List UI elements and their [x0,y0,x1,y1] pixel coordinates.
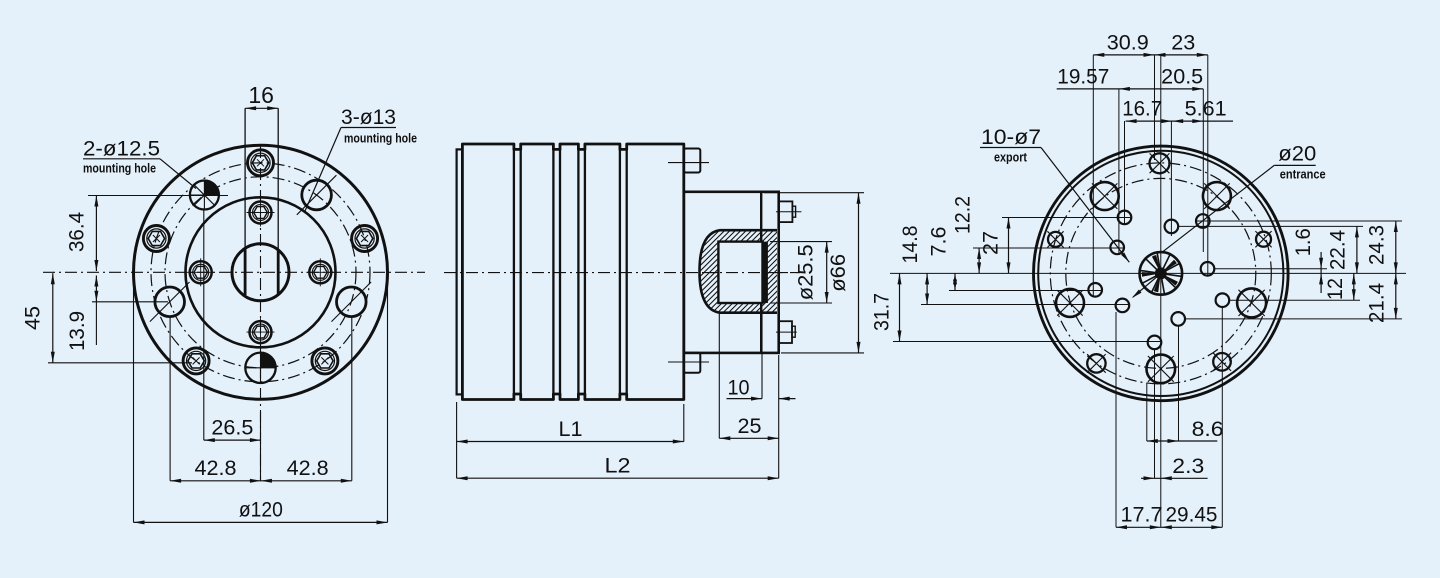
flange plate line [760,192,762,353]
shaft hole flat + 16-dim extension lines [244,108,246,295]
rear face inner circle [1038,151,1283,396]
svg-text:mounting hole: mounting hole [83,162,156,176]
dim 7.6 [954,273,956,290]
hole large at 198 deg [1056,289,1084,317]
center shaft hole [232,244,289,301]
svg-text:export: export [994,151,1028,165]
dim 42.8 + 42.8 bottom [169,317,171,481]
hex socket screw at 162 deg [143,226,169,252]
svg-text:13.9: 13.9 [66,311,89,351]
svg-text:30.9: 30.9 [1107,32,1149,55]
dim 27 [1008,218,1010,274]
heavy seal bar [762,242,768,303]
hex socket screw at 18 deg [352,226,378,252]
hole bolt circle hole [1213,353,1231,371]
dim ø120 bottom [133,280,135,522]
svg-text:42.8: 42.8 [195,457,237,480]
dim 10 [761,313,763,399]
svg-text:20.5: 20.5 [1161,66,1203,89]
centerline vertical right view [1160,55,1162,527]
svg-text:21.4: 21.4 [1366,283,1389,323]
svg-text:3-ø13: 3-ø13 [341,106,396,129]
svg-text:14.8: 14.8 [899,226,922,264]
bottom stud bolt on body [684,353,701,373]
svg-text:25: 25 [738,415,762,438]
hole bolt circle hole [1256,232,1271,247]
mounting hole 3-ø13 upper right [302,180,332,210]
dim 26.5 bottom [203,210,205,440]
leader from center to export hole K [1133,273,1161,297]
dim 2.3 [1141,477,1208,479]
svg-text:16.7: 16.7 [1122,98,1162,121]
svg-text:26.5: 26.5 [211,417,253,440]
hex socket screw at 234 deg [183,348,209,374]
hole bolt circle hole [1048,232,1063,247]
hole bolt circle hole [1087,354,1105,372]
svg-text:23: 23 [1171,32,1195,55]
svg-text:24.3: 24.3 [1366,225,1389,265]
bolt circle r95 dash-dot [1066,178,1256,368]
dim 14.8 [926,273,928,304]
svg-text:31.7: 31.7 [871,293,894,331]
left end cap [457,149,463,394]
half-section mounting hole 2-ø12.5 upper left [190,181,219,210]
small hole ø7 #4 [1088,283,1102,297]
small hole ø7 #9 [1201,262,1215,276]
svg-text:42.8: 42.8 [287,457,329,480]
dim L2 [778,355,780,478]
bolt circle r95 dash-dot [165,177,356,368]
dim 31.7 [899,273,901,341]
svg-text:L2: L2 [605,455,631,478]
svg-text:12.2: 12.2 [952,196,975,234]
center entrance hole ø20 with turbine spokes [1140,252,1183,295]
dim 21.4 [1395,273,1397,319]
dim 36.4 left [88,195,228,197]
small hole ø7 #8 [1216,293,1230,307]
dim 16 top [245,107,278,109]
bolt circle r110 dash-dot [1050,163,1271,384]
centerline horizontal right view [890,272,1406,274]
svg-text:12: 12 [1324,278,1347,300]
hex socket screw inner at 270 deg [250,321,272,343]
svg-text:ø120: ø120 [239,499,283,522]
flange inner ring [186,197,336,347]
svg-text:mounting hole: mounting hole [344,132,417,146]
svg-text:16: 16 [248,82,274,108]
hole large at 54 deg [1203,182,1231,210]
small hole ø7 #6 [1148,336,1162,350]
half-section mounting hole 2-ø12.5 bottom [245,353,275,383]
top stud bolt on body [684,149,701,173]
studs on flange plate right [779,201,793,222]
shaft hole flats (thick chords) [244,250,247,296]
centerline vertical left view [260,146,262,481]
hex socket screw inner at 90 deg [250,202,272,224]
svg-text:19.57: 19.57 [1057,66,1109,89]
svg-text:ø20: ø20 [1278,143,1316,166]
vertical extension lines bottom dims [1115,312,1117,527]
dim 12.2 [978,248,980,273]
mounting hole 3-ø13 lower left [155,287,185,317]
port bore (white) [718,242,762,303]
hex socket screw at 306 deg [312,348,338,374]
svg-text:1.6: 1.6 [1292,228,1315,256]
svg-text:8.6: 8.6 [1192,418,1224,441]
svg-text:22.4: 22.4 [1327,230,1350,270]
dim 12 [1353,273,1355,300]
flange outer circle ø120 [134,145,388,399]
bolt circle r110 dash-dot [151,163,370,382]
dim L1 [456,402,458,478]
small hole ø7 #2 [1118,211,1132,225]
svg-text:10: 10 [728,376,750,399]
hole bolt circle hole [1150,153,1170,173]
hex socket screw inner at 180 deg [190,261,212,283]
dim 17.7 / 29.45 [1116,526,1222,528]
dim 1.6 [1320,252,1322,293]
dim 45 left [48,362,192,364]
small hole ø7 #1 [1165,220,1179,234]
svg-text:29.45: 29.45 [1166,504,1218,527]
svg-text:2-ø12.5: 2-ø12.5 [83,138,160,161]
svg-text:2.3: 2.3 [1172,455,1204,478]
rib groove lines full height [513,149,515,394]
svg-text:45: 45 [22,306,45,330]
svg-text:7.6: 7.6 [928,227,951,257]
hex socket screw inner at 0 deg [309,261,331,283]
hex socket screw at 90 deg [248,150,274,176]
dim 16.7 / 5.61 [1126,120,1233,122]
horizontal extension lines left dims [1002,217,1131,219]
dim ø66 [764,192,864,194]
small hole ø7 #7 [1171,312,1185,326]
dim 30.9 / 23 top [1093,54,1208,56]
horizontal extension lines right dims [1178,225,1363,227]
dim ø25.5 [770,241,832,243]
vertical extension lines top dims [1092,55,1094,297]
dim 8.6 [1147,440,1218,442]
svg-text:36.4: 36.4 [66,212,89,252]
svg-text:17.7: 17.7 [1121,504,1163,527]
svg-text:5.61: 5.61 [1185,98,1227,121]
dim 22.4 [1356,226,1358,273]
svg-text:ø25.5: ø25.5 [795,244,818,300]
dim 19.57 / 20.5 [1057,88,1204,90]
hole large at 126 deg [1091,182,1119,210]
centerline horizontal left view [43,271,425,273]
small hole ø7 #3 [1110,241,1124,255]
centerline middle view [444,272,800,274]
port flange block [684,192,779,353]
dim 24.3 [1395,221,1397,273]
svg-text:ø66: ø66 [827,254,850,292]
svg-text:10-ø7: 10-ø7 [981,126,1041,149]
dim 25 [718,313,720,438]
svg-text:entrance: entrance [1280,168,1326,182]
svg-text:27: 27 [980,231,1003,255]
small hole ø7 #10 [1196,214,1210,228]
hole large at 270 deg [1147,355,1176,384]
dim 13.9 left [92,301,168,303]
svg-text:L1: L1 [559,418,583,441]
hole large at 342 deg [1237,288,1266,317]
centerline through bore [704,272,800,274]
small hole ø7 #5 [1116,299,1130,313]
pump body drum outline with ribs [462,144,683,400]
rear face outer circle [1034,146,1289,401]
mounting hole 3-ø13 lower right [337,287,367,317]
